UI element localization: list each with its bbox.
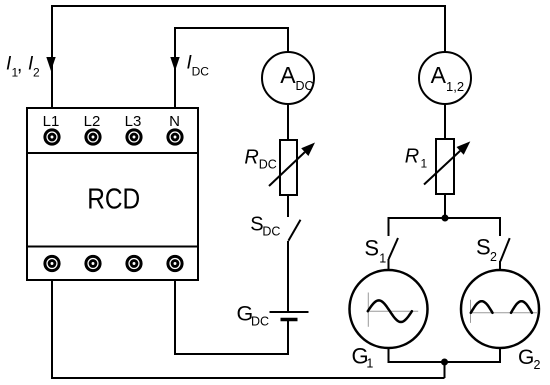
svg-text:L1: L1 <box>43 113 60 130</box>
svg-text:1: 1 <box>379 251 386 265</box>
svg-text:S: S <box>476 235 491 260</box>
svg-text:L2: L2 <box>84 113 101 130</box>
svg-text:DC: DC <box>259 157 277 171</box>
svg-text:G: G <box>518 346 534 369</box>
svg-text:R: R <box>405 146 419 168</box>
svg-text:1: 1 <box>366 357 373 371</box>
svg-text:DC: DC <box>296 79 314 93</box>
svg-text:L3: L3 <box>125 113 142 130</box>
svg-text:2: 2 <box>490 250 497 264</box>
svg-text:S: S <box>364 236 379 261</box>
svg-text:,: , <box>17 55 22 76</box>
svg-text:2: 2 <box>33 65 40 79</box>
svg-text:1,2: 1,2 <box>446 79 464 94</box>
svg-text:DC: DC <box>251 315 269 329</box>
svg-text:2: 2 <box>534 358 541 372</box>
svg-text:A: A <box>280 62 296 88</box>
svg-text:N: N <box>169 113 180 130</box>
svg-text:R: R <box>244 147 258 169</box>
svg-text:DC: DC <box>192 65 210 79</box>
svg-text:DC: DC <box>262 225 280 239</box>
svg-text:1: 1 <box>421 157 428 171</box>
svg-text:RCD: RCD <box>87 184 140 216</box>
svg-text:A: A <box>431 62 447 88</box>
